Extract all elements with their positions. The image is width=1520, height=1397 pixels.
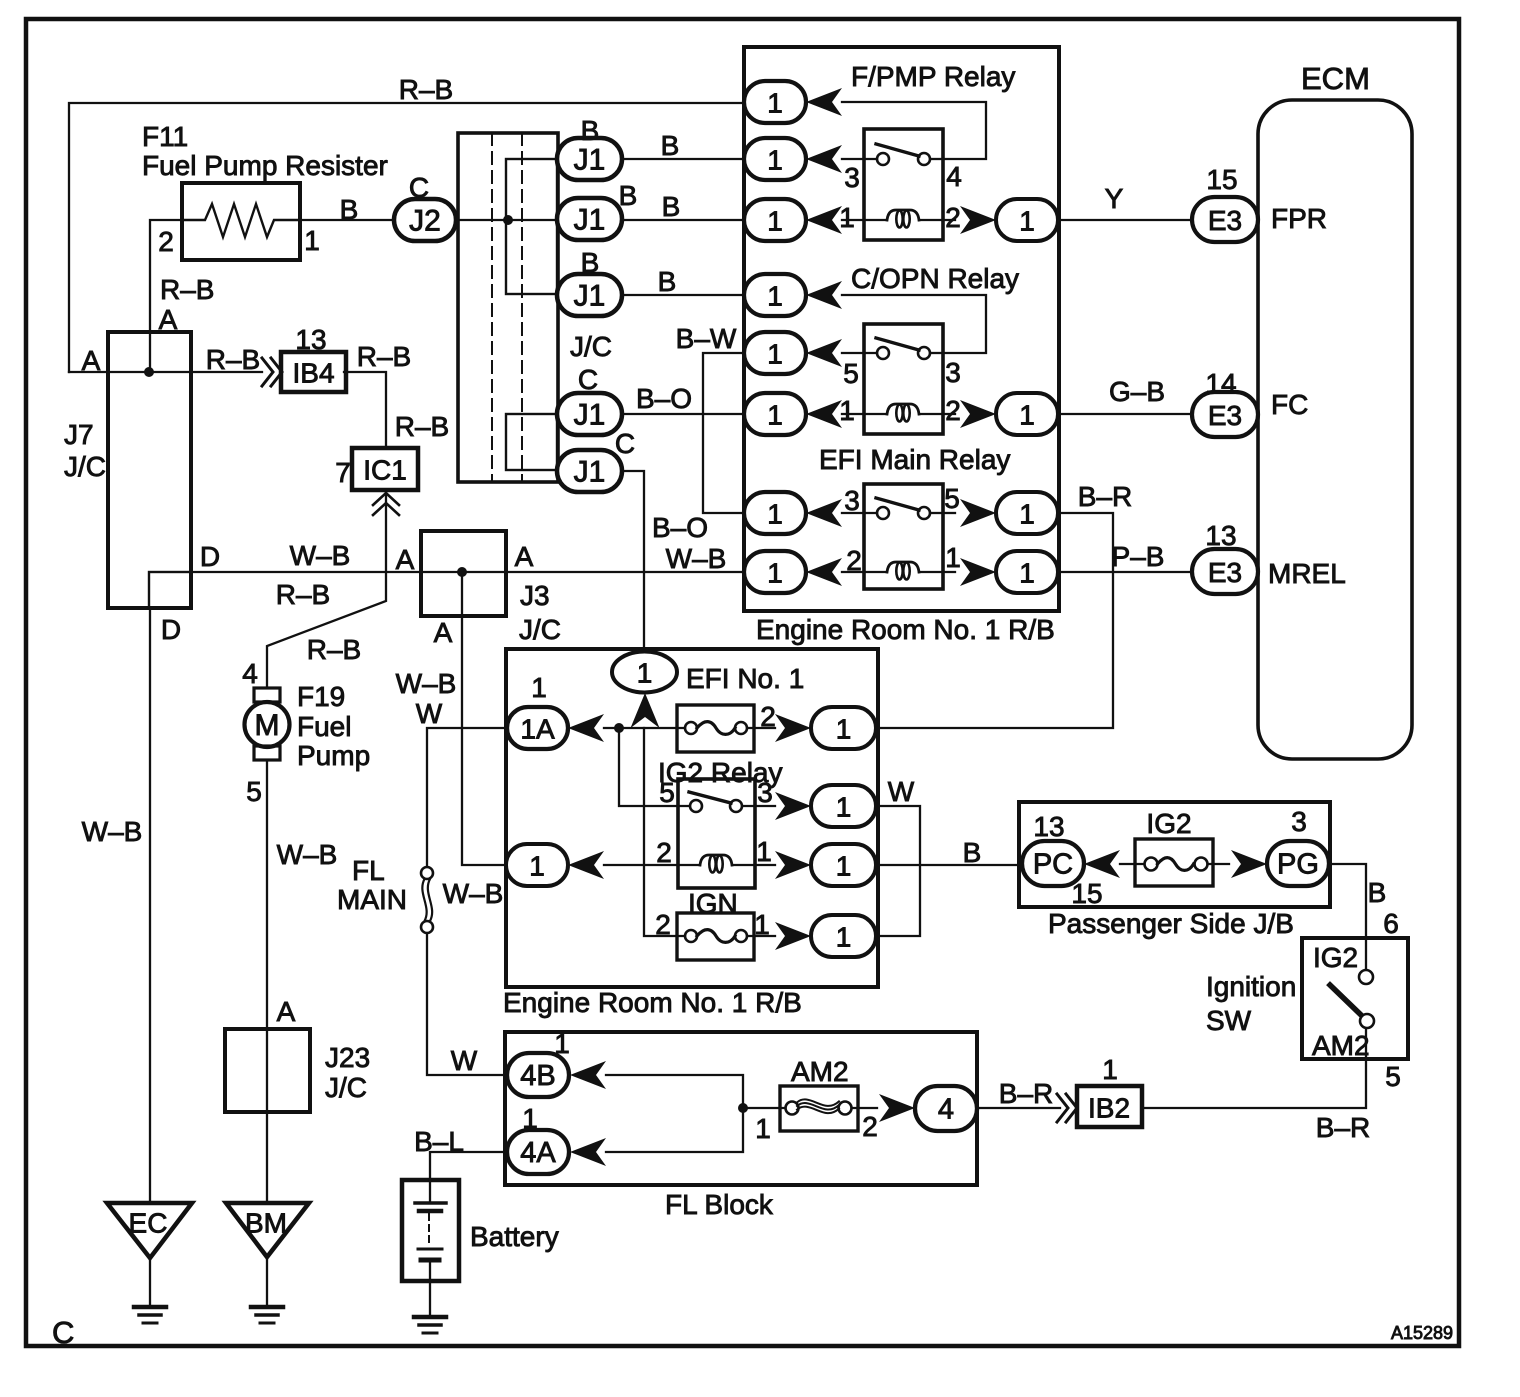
svg-text:PC: PC	[1033, 849, 1073, 881]
svg-text:1: 1	[754, 909, 770, 940]
svg-text:A15289: A15289	[1391, 1323, 1453, 1343]
svg-text:3: 3	[945, 357, 961, 388]
svg-text:IGN: IGN	[688, 888, 738, 919]
svg-text:Passenger Side J/B: Passenger Side J/B	[1048, 908, 1294, 939]
svg-text:J/C: J/C	[570, 331, 612, 362]
svg-text:W: W	[888, 776, 915, 807]
svg-text:EC: EC	[129, 1208, 168, 1239]
svg-text:1: 1	[304, 225, 320, 256]
svg-text:13: 13	[1205, 520, 1236, 551]
svg-text:C: C	[52, 1315, 74, 1350]
svg-text:B: B	[658, 266, 677, 297]
svg-text:2: 2	[862, 1111, 878, 1142]
svg-text:15: 15	[1206, 164, 1237, 195]
svg-text:1: 1	[531, 672, 547, 703]
svg-text:3: 3	[844, 485, 860, 516]
svg-text:W–B: W–B	[82, 816, 143, 847]
svg-text:B–R: B–R	[999, 1078, 1053, 1109]
svg-text:A: A	[515, 541, 534, 572]
svg-text:Engine Room No. 1 R/B: Engine Room No. 1 R/B	[756, 614, 1055, 645]
svg-text:W–B: W–B	[443, 878, 504, 909]
svg-text:W–B: W–B	[290, 540, 351, 571]
svg-text:2: 2	[655, 909, 671, 940]
svg-text:1: 1	[839, 202, 855, 233]
svg-text:2: 2	[945, 395, 961, 426]
svg-text:13: 13	[1033, 811, 1064, 842]
svg-text:B: B	[963, 837, 982, 868]
svg-text:A: A	[434, 617, 453, 648]
svg-text:5: 5	[246, 776, 262, 807]
svg-text:1: 1	[1019, 206, 1035, 237]
svg-text:4A: 4A	[520, 1137, 556, 1169]
svg-text:C: C	[409, 172, 429, 203]
svg-text:E3: E3	[1208, 205, 1242, 236]
svg-text:Pump: Pump	[297, 740, 370, 771]
svg-text:FPR: FPR	[1271, 203, 1327, 234]
svg-text:J1: J1	[574, 144, 606, 177]
svg-text:1: 1	[945, 542, 961, 573]
svg-text:3: 3	[1291, 806, 1307, 837]
svg-text:2: 2	[846, 545, 862, 576]
svg-text:C/OPN Relay: C/OPN Relay	[851, 263, 1019, 294]
svg-text:D: D	[161, 614, 181, 645]
svg-text:IG2: IG2	[1146, 808, 1191, 839]
svg-text:1: 1	[529, 851, 545, 882]
svg-text:B–L: B–L	[414, 1126, 464, 1157]
svg-text:1: 1	[1019, 400, 1035, 431]
svg-text:B: B	[1368, 877, 1387, 908]
svg-text:B: B	[662, 191, 681, 222]
svg-text:R–B: R–B	[307, 634, 361, 665]
svg-text:4: 4	[242, 658, 258, 689]
svg-text:1: 1	[1019, 499, 1035, 530]
svg-text:Ignition: Ignition	[1206, 971, 1296, 1002]
svg-text:4: 4	[938, 1094, 954, 1126]
svg-text:3: 3	[757, 777, 773, 808]
svg-text:IC1: IC1	[363, 455, 407, 486]
svg-text:6: 6	[1383, 908, 1399, 939]
svg-text:B–W: B–W	[676, 323, 737, 354]
svg-text:1: 1	[554, 1028, 570, 1059]
svg-text:E3: E3	[1208, 557, 1242, 588]
svg-text:R–B: R–B	[399, 74, 453, 105]
svg-text:J2: J2	[409, 205, 441, 238]
svg-text:2: 2	[760, 701, 776, 732]
svg-text:R–B: R–B	[160, 274, 214, 305]
svg-text:3: 3	[844, 162, 860, 193]
svg-text:D: D	[200, 541, 220, 572]
svg-text:J1: J1	[574, 456, 606, 489]
svg-text:E3: E3	[1208, 400, 1242, 431]
svg-text:J7: J7	[64, 419, 94, 450]
svg-text:4B: 4B	[520, 1060, 555, 1092]
svg-text:1: 1	[767, 88, 783, 119]
svg-text:14: 14	[1205, 368, 1236, 399]
svg-text:5: 5	[1385, 1061, 1401, 1092]
svg-text:MAIN: MAIN	[337, 884, 407, 915]
svg-text:B: B	[661, 130, 680, 161]
svg-text:2: 2	[158, 226, 174, 257]
svg-text:P–B: P–B	[1112, 541, 1165, 572]
svg-text:W–B: W–B	[396, 668, 457, 699]
svg-text:J/C: J/C	[325, 1072, 367, 1103]
svg-text:J3: J3	[520, 580, 550, 611]
svg-text:SW: SW	[1206, 1005, 1252, 1036]
svg-text:1: 1	[755, 1113, 771, 1144]
svg-text:5: 5	[944, 483, 960, 514]
svg-text:7: 7	[335, 457, 351, 488]
svg-text:B–R: B–R	[1316, 1112, 1370, 1143]
svg-text:13: 13	[295, 324, 326, 355]
svg-text:1: 1	[637, 658, 653, 689]
svg-text:A: A	[159, 304, 178, 335]
svg-text:B–O: B–O	[636, 383, 692, 414]
svg-text:1: 1	[836, 714, 852, 745]
svg-text:5: 5	[843, 358, 859, 389]
svg-text:Fuel: Fuel	[297, 711, 351, 742]
svg-text:AM2: AM2	[1312, 1030, 1370, 1061]
svg-text:AM2: AM2	[791, 1056, 849, 1087]
svg-text:J23: J23	[325, 1042, 370, 1073]
svg-text:IB4: IB4	[292, 358, 334, 389]
svg-text:F19: F19	[297, 681, 345, 712]
svg-text:B: B	[340, 194, 359, 225]
svg-text:R–B: R–B	[276, 579, 330, 610]
svg-text:BM: BM	[245, 1208, 287, 1239]
svg-text:EFI Main Relay: EFI Main Relay	[819, 444, 1010, 475]
svg-text:J1: J1	[574, 280, 606, 313]
svg-text:FC: FC	[1271, 389, 1308, 420]
svg-text:1: 1	[767, 400, 783, 431]
svg-text:2: 2	[656, 837, 672, 868]
svg-text:1: 1	[767, 499, 783, 530]
svg-text:FL Block: FL Block	[665, 1189, 774, 1220]
svg-text:1: 1	[1102, 1054, 1118, 1085]
svg-text:2: 2	[945, 202, 961, 233]
svg-text:PG: PG	[1277, 849, 1319, 881]
svg-text:W: W	[416, 698, 443, 729]
svg-text:1: 1	[836, 792, 852, 823]
svg-text:B: B	[581, 115, 600, 146]
svg-text:5: 5	[659, 777, 675, 808]
svg-text:Fuel Pump Resister: Fuel Pump Resister	[142, 150, 388, 181]
svg-text:G–B: G–B	[1109, 376, 1165, 407]
svg-text:1A: 1A	[520, 714, 555, 745]
svg-text:EFI No. 1: EFI No. 1	[686, 663, 804, 694]
svg-text:J1: J1	[574, 399, 606, 432]
svg-text:1: 1	[522, 1103, 538, 1134]
svg-text:MREL: MREL	[1268, 558, 1346, 589]
svg-text:M: M	[255, 709, 280, 742]
svg-text:W–B: W–B	[666, 543, 727, 574]
svg-text:1: 1	[756, 836, 772, 867]
svg-text:A: A	[277, 996, 296, 1027]
svg-text:B: B	[581, 247, 600, 278]
svg-text:IG2: IG2	[1313, 942, 1358, 973]
svg-text:Engine Room No. 1 R/B: Engine Room No. 1 R/B	[503, 987, 802, 1018]
svg-text:1: 1	[767, 281, 783, 312]
svg-text:IB2: IB2	[1088, 1093, 1130, 1124]
svg-text:4: 4	[946, 161, 962, 192]
svg-text:F11: F11	[142, 121, 188, 152]
svg-text:1: 1	[1019, 558, 1035, 589]
svg-text:W: W	[451, 1045, 478, 1076]
svg-text:J/C: J/C	[64, 451, 106, 482]
svg-text:R–B: R–B	[357, 341, 411, 372]
svg-text:1: 1	[767, 206, 783, 237]
svg-text:J1: J1	[574, 204, 606, 237]
svg-text:B–O: B–O	[652, 512, 708, 543]
svg-text:R–B: R–B	[206, 344, 260, 375]
svg-text:A: A	[396, 544, 415, 575]
svg-text:B: B	[619, 180, 638, 211]
svg-text:A: A	[82, 345, 101, 376]
svg-text:1: 1	[767, 145, 783, 176]
svg-text:1: 1	[767, 339, 783, 370]
svg-text:B–R: B–R	[1078, 481, 1132, 512]
svg-text:C: C	[578, 364, 598, 395]
svg-text:R–B: R–B	[395, 411, 449, 442]
svg-text:W–B: W–B	[277, 839, 338, 870]
svg-text:ECM: ECM	[1301, 61, 1370, 96]
svg-text:Y: Y	[1105, 183, 1124, 214]
svg-text:1: 1	[839, 395, 855, 426]
svg-text:1: 1	[836, 851, 852, 882]
svg-text:F/PMP Relay: F/PMP Relay	[851, 61, 1015, 92]
svg-text:C: C	[615, 428, 635, 459]
svg-text:Battery: Battery	[470, 1221, 559, 1252]
svg-text:FL: FL	[352, 855, 385, 886]
svg-text:1: 1	[767, 558, 783, 589]
svg-text:15: 15	[1071, 878, 1102, 909]
svg-text:J/C: J/C	[519, 614, 561, 645]
svg-text:1: 1	[836, 922, 852, 953]
